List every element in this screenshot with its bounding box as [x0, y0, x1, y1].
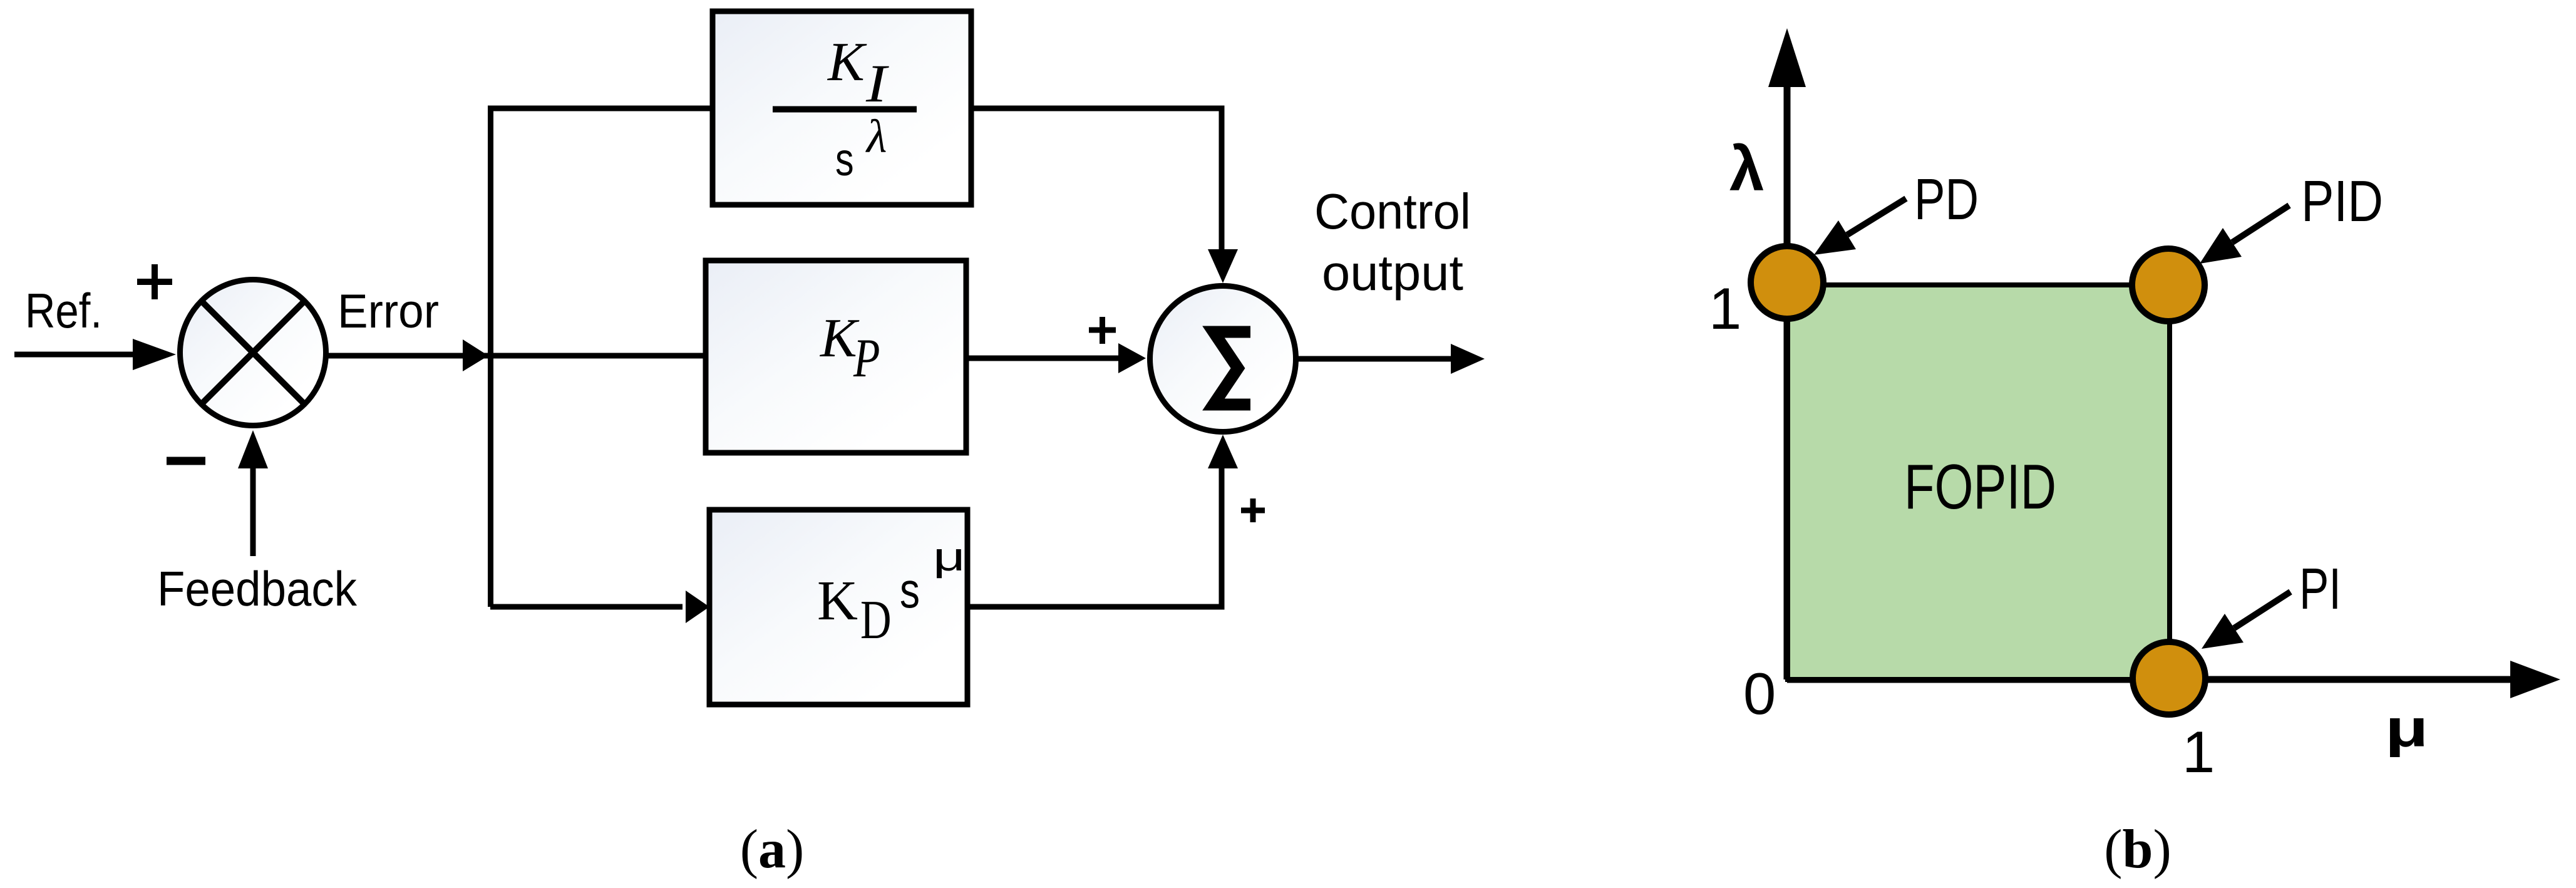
sum circle — [1150, 286, 1296, 432]
plus sign (Ref input polarity) — [137, 264, 172, 299]
plus sign (KD input to sum) — [1241, 498, 1265, 522]
mu axis — [1787, 676, 2512, 683]
svg-text:s: s — [835, 134, 854, 186]
block KD — [709, 510, 967, 705]
svg-text:0: 0 — [1743, 661, 1776, 726]
arrow PID — [2232, 205, 2289, 242]
arrowhead feedback into summing junction — [238, 430, 268, 468]
node PD circle — [1751, 246, 1823, 319]
wire Ref input — [14, 352, 138, 358]
wire branch to KI — [488, 106, 714, 111]
block KI — [713, 11, 971, 205]
wire branch to KD — [490, 604, 683, 610]
svg-text:1: 1 — [2182, 719, 2215, 785]
wire feedback — [250, 465, 256, 556]
svg-text:PD: PD — [1914, 167, 1979, 232]
svg-text:μ: μ — [933, 535, 966, 579]
svg-text:P: P — [853, 328, 880, 389]
svg-text:s: s — [900, 562, 920, 618]
lambda axis — [1784, 87, 1791, 679]
svg-text:D: D — [860, 590, 892, 651]
svg-text:K: K — [827, 32, 867, 93]
wire KD to sum — [967, 467, 1222, 607]
wire KI to sum — [971, 108, 1222, 250]
svg-text:λ: λ — [1729, 134, 1765, 204]
svg-text:PI: PI — [2299, 556, 2341, 621]
minus sign (Feedback polarity) — [167, 457, 205, 465]
mu axis arrowhead — [2510, 661, 2560, 698]
svg-text:output: output — [1322, 245, 1463, 301]
summing junction circle — [180, 280, 326, 426]
arrow PD — [1847, 199, 1906, 235]
arrowhead KD into sum bottom — [1208, 435, 1238, 468]
FOPID region green square — [1788, 285, 2170, 679]
node PI circle — [2133, 642, 2205, 715]
X cross inside summing junction — [202, 301, 304, 404]
arrow PI — [2234, 592, 2290, 628]
svg-text:(a): (a) — [740, 819, 805, 880]
arrowhead into KD — [686, 591, 709, 623]
arrowhead KP into sum — [1118, 343, 1146, 373]
node PID circle — [2132, 249, 2205, 321]
arrowhead into branch junction — [463, 339, 488, 371]
wire sum output — [1296, 356, 1453, 362]
svg-text:1: 1 — [1709, 276, 1741, 341]
svg-text:Control: Control — [1314, 183, 1471, 239]
svg-text:I: I — [865, 54, 889, 114]
svg-text:μ: μ — [2385, 700, 2428, 758]
svg-text:PID: PID — [2301, 168, 2383, 234]
svg-text:Ref.: Ref. — [25, 283, 102, 338]
svg-text:(b): (b) — [2104, 819, 2172, 880]
lambda axis arrowhead — [1768, 28, 1806, 87]
arrowhead output — [1451, 344, 1485, 374]
branch junction column wire — [488, 108, 493, 607]
plus sign (KP input to sum) — [1089, 317, 1116, 344]
fraction bar — [773, 106, 917, 113]
arrowhead Ref into summing junction — [133, 339, 176, 370]
svg-text:Feedback: Feedback — [157, 561, 358, 616]
wire error to branch junction and KP — [326, 353, 708, 359]
arrowhead KI into sum top — [1208, 249, 1238, 283]
svg-text:K: K — [817, 570, 858, 632]
svg-text:Error: Error — [337, 285, 439, 338]
svg-text:λ: λ — [865, 111, 887, 163]
sigma symbol — [1213, 332, 1250, 405]
wire KP to sum — [966, 356, 1121, 361]
svg-text:FOPID: FOPID — [1904, 452, 2056, 522]
block KP — [706, 261, 966, 453]
